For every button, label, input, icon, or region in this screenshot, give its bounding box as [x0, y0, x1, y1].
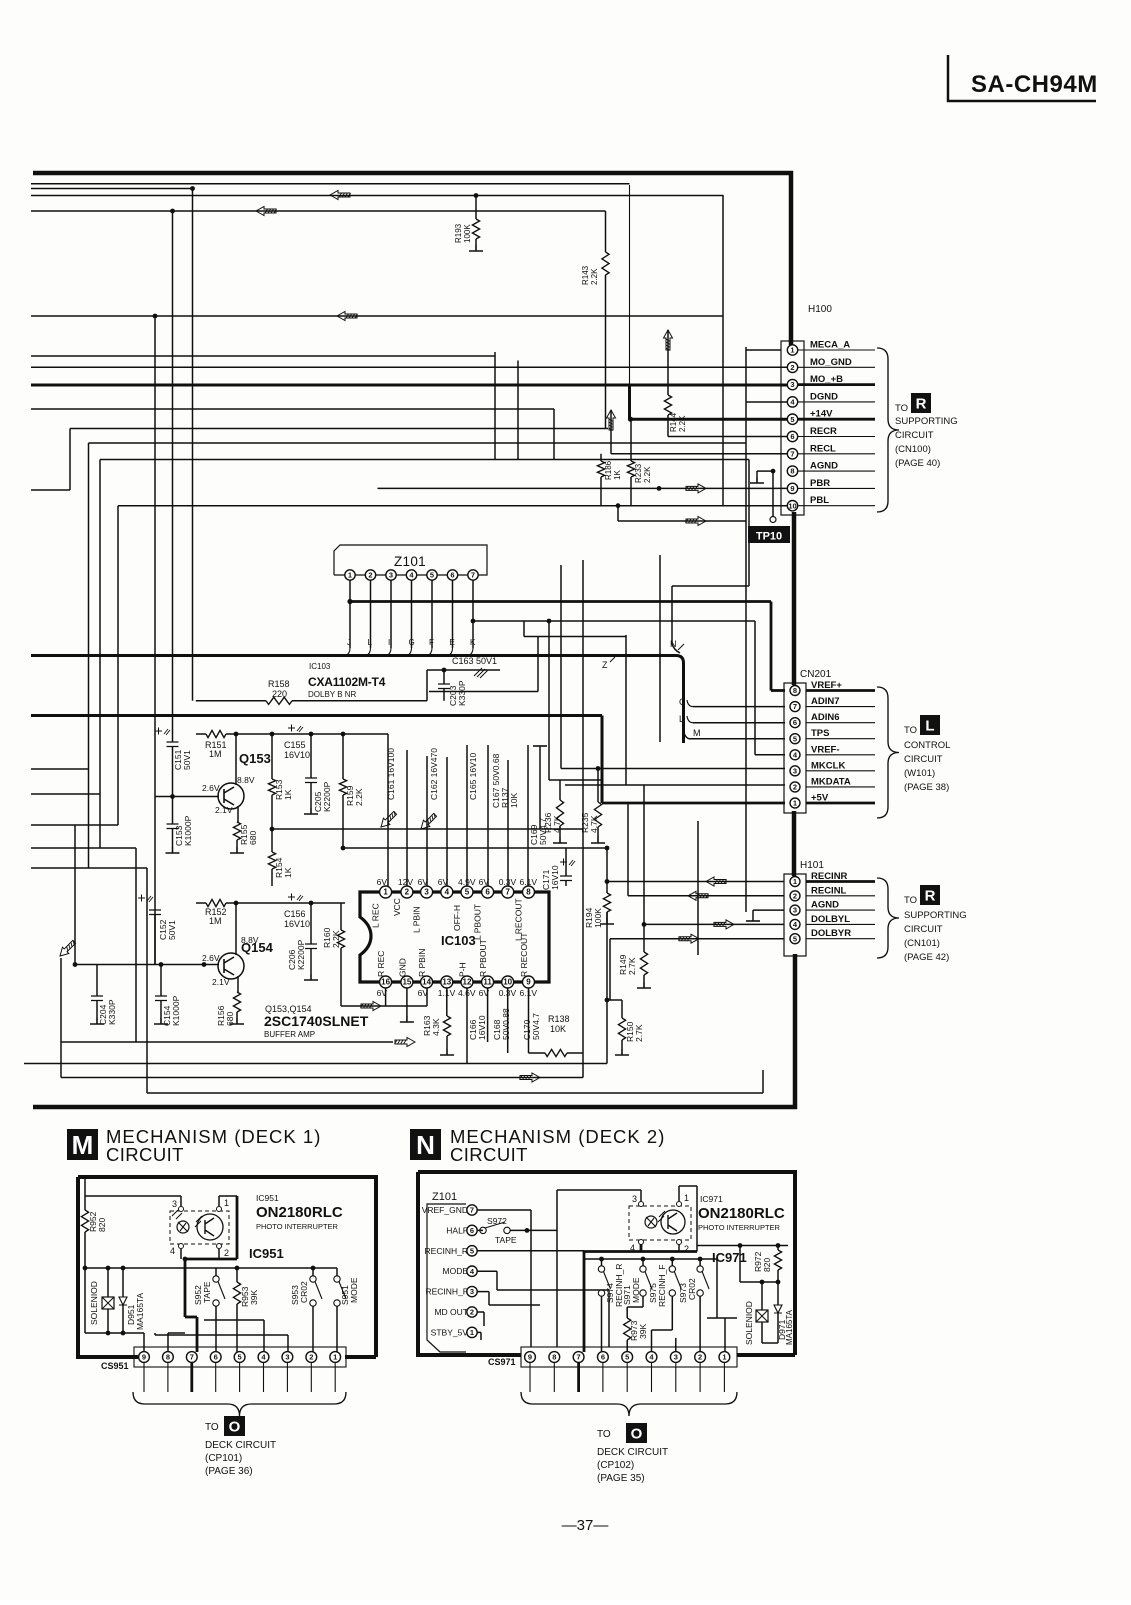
svg-text:TAPE: TAPE — [495, 1235, 517, 1245]
svg-text:Z101: Z101 — [394, 554, 426, 569]
bold wire y385 to H100 pin3 MO_+B — [31, 384, 787, 387]
svg-text:CR02: CR02 — [299, 1281, 309, 1303]
svg-text:R193: R193 — [454, 223, 463, 243]
svg-text:IC971: IC971 — [700, 1194, 723, 1204]
svg-text:16V10: 16V10 — [284, 750, 310, 760]
CN201 pin 7 ADIN7 — [806, 706, 875, 708]
svg-text:3: 3 — [389, 571, 393, 580]
svg-text:12: 12 — [463, 978, 472, 987]
svg-text:2.1V: 2.1V — [215, 805, 233, 815]
svg-text:2.2K: 2.2K — [678, 415, 687, 432]
deck2 Z101 pin 4 MODE — [467, 1266, 477, 1276]
wire y829 — [270, 827, 275, 832]
Q153 base wire — [155, 796, 219, 798]
svg-text:K330P: K330P — [107, 999, 117, 1025]
svg-text:PHOTO INTERRUPTER: PHOTO INTERRUPTER — [256, 1222, 339, 1231]
svg-text:MD OUT: MD OUT — [434, 1307, 468, 1317]
svg-text:IC103: IC103 — [441, 933, 476, 948]
svg-text:TO: TO — [205, 1422, 219, 1433]
svg-text:8: 8 — [552, 1353, 556, 1362]
CS971 pin 8 — [549, 1352, 560, 1363]
svg-text:AGND: AGND — [810, 461, 838, 472]
resistor R150 2.7K — [621, 1000, 623, 1018]
svg-text:3: 3 — [632, 1194, 637, 1204]
deck2 brace to deck circuit — [521, 1392, 737, 1416]
deck2 photo transistor — [661, 1210, 685, 1234]
CN201 pin 1 +5V — [806, 802, 875, 805]
IC103 top pin 7 — [502, 886, 514, 898]
connector CN201 body — [784, 683, 806, 813]
resistor R233 2.2K — [630, 419, 632, 461]
wire y785 MKDATA — [565, 784, 785, 786]
svg-text:1K: 1K — [283, 867, 293, 878]
svg-text:MA165TA: MA165TA — [135, 1293, 145, 1330]
off-page arrow on y211 — [256, 207, 277, 216]
svg-text:39K: 39K — [249, 1290, 259, 1305]
deck2 riser x697 — [696, 1186, 698, 1252]
svg-text:4.7K: 4.7K — [589, 815, 599, 833]
svg-text:4.9V: 4.9V — [458, 877, 476, 887]
vertical wire x88.5 to y868 — [88, 443, 90, 868]
resistor R236 4.7K — [559, 780, 561, 800]
svg-text:CIRCUIT: CIRCUIT — [904, 754, 943, 765]
CS971 pin 4 — [646, 1352, 657, 1363]
vertical x583 return — [582, 560, 584, 1078]
svg-text:MA165TA: MA165TA — [785, 1309, 794, 1345]
svg-text:O: O — [631, 1425, 643, 1442]
svg-text:3: 3 — [424, 888, 429, 897]
svg-text:16V10: 16V10 — [477, 1015, 487, 1040]
svg-text:16: 16 — [381, 978, 390, 987]
svg-text:IC951: IC951 — [249, 1246, 284, 1261]
wire y409 — [31, 408, 554, 410]
IC top pin6 wire x488 — [487, 745, 489, 886]
svg-text:VCC: VCC — [392, 898, 402, 916]
vertical x607 return — [606, 848, 608, 893]
svg-text:Q153: Q153 — [239, 751, 271, 766]
svg-text:1: 1 — [470, 1328, 474, 1337]
CS951 pin 9 — [139, 1352, 150, 1363]
wire y586 — [672, 585, 749, 587]
svg-text:N: N — [416, 1130, 435, 1160]
bold bus y715 — [31, 714, 602, 717]
IC pin12 wire down to return bus — [466, 988, 468, 1064]
H100 brace — [877, 348, 899, 512]
vertical wire x554 — [553, 409, 555, 460]
svg-text:SOLENIOD: SOLENIOD — [89, 1281, 99, 1325]
CN201 pin 8 VREF+ — [806, 689, 875, 692]
resistor R149 2.7K — [643, 924, 645, 952]
deck2 connector CS971 body — [521, 1347, 737, 1367]
svg-text:TAPE: TAPE — [202, 1281, 212, 1303]
svg-text:5: 5 — [238, 1353, 242, 1362]
thick bus right vertical upper — [789, 171, 794, 345]
svg-text:5: 5 — [790, 415, 794, 424]
CS951 pin 5 — [234, 1352, 245, 1363]
svg-text:RECR: RECR — [810, 426, 837, 437]
svg-text:2.2K: 2.2K — [643, 466, 652, 483]
CS971 pin 2 — [695, 1352, 706, 1363]
svg-text:16V10: 16V10 — [284, 919, 310, 929]
resistor R235 4.7K — [597, 769, 599, 803]
svg-text:6: 6 — [790, 432, 794, 441]
H100 pin 6 RECR — [798, 436, 875, 438]
IC103 bottom pin 14 — [421, 976, 433, 988]
svg-text:R233: R233 — [634, 463, 643, 483]
H101 pin 2 RECINL — [806, 895, 875, 897]
vertical wire x118 — [117, 506, 119, 825]
IC103 chip body — [360, 892, 549, 982]
Q154 base wire y964.5 — [75, 964, 219, 966]
svg-text:K2200P: K2200P — [322, 781, 332, 812]
svg-text:C162 16V470: C162 16V470 — [429, 748, 439, 800]
resistor R153 1K — [271, 734, 273, 779]
wire y356 MO_GND-area — [31, 355, 495, 357]
vertical x147 — [146, 868, 148, 1093]
transistor Q154 — [218, 953, 244, 979]
svg-text:8: 8 — [166, 1353, 170, 1362]
svg-text:K2200P: K2200P — [296, 939, 306, 970]
deck1 pin3 riser — [287, 1335, 289, 1352]
IC103 bottom pin 13 — [441, 976, 453, 988]
off-page arrow on y1077.5 — [520, 1073, 541, 1082]
deck1 diode D951 MA165TA — [122, 1268, 124, 1297]
svg-text:6V: 6V — [479, 877, 490, 887]
Z101 pin 6 — [447, 570, 457, 580]
svg-text:5: 5 — [430, 571, 434, 580]
svg-text:HALF: HALF — [446, 1225, 468, 1235]
svg-text:50V1: 50V1 — [182, 750, 192, 770]
deck2 pin3 riser — [675, 1338, 677, 1352]
svg-text:4.7K: 4.7K — [552, 815, 562, 833]
svg-text:GND: GND — [397, 958, 407, 977]
deck1 switch S951 MODE — [336, 1268, 338, 1276]
CS951 pin 6 — [210, 1352, 221, 1363]
svg-text:2.6V: 2.6V — [202, 783, 220, 793]
svg-text:1K: 1K — [283, 789, 293, 800]
svg-text:5: 5 — [793, 734, 797, 743]
CN201 pin 2 MKDATA — [806, 786, 875, 788]
CN201 brace — [877, 687, 899, 818]
svg-text:2.7K: 2.7K — [627, 957, 637, 975]
svg-text:MO_+B: MO_+B — [810, 374, 843, 385]
long vertical x192 to R158 wire — [192, 189, 194, 701]
vertical wire x626 node Z to MKDATA — [625, 635, 627, 785]
Z101 pin 7 — [468, 570, 478, 580]
svg-text:C165 16V10: C165 16V10 — [468, 752, 478, 800]
Z101 pin 1 — [345, 570, 355, 580]
IC top pin4 wire x447 — [446, 757, 448, 886]
resistor R194 100K — [603, 893, 610, 912]
H101 pin 5 DOLBYR — [806, 938, 875, 940]
svg-text:680: 680 — [248, 831, 258, 845]
IC103 top pin 6 — [482, 886, 494, 898]
svg-text:C163 50V1: C163 50V1 — [452, 656, 497, 666]
deck2 switch S971 MODE — [642, 1259, 644, 1266]
resistor R186 1K — [600, 454, 602, 461]
svg-text:9: 9 — [142, 1353, 146, 1362]
svg-text:13: 13 — [442, 978, 451, 987]
deck2 interrupter terminals — [639, 1202, 644, 1207]
capacitor C203 K330P — [443, 670, 445, 684]
IC103 top pin 4 — [441, 886, 453, 898]
capacitor C171 16V10 — [560, 859, 575, 867]
vertical x561 — [560, 565, 562, 769]
vertical wire x630 from y185 — [629, 185, 631, 387]
wire y636.5 jog — [523, 621, 525, 637]
svg-text:2: 2 — [698, 1353, 702, 1362]
svg-text:2.1V: 2.1V — [212, 977, 230, 987]
deck2 Z101 pin 2 MD OUT — [467, 1307, 477, 1317]
svg-text:R RECOUT: R RECOUT — [519, 933, 529, 977]
svg-text:MKDATA: MKDATA — [811, 776, 851, 787]
H101 pin 3 AGND — [806, 909, 875, 911]
main schematic top border — [33, 171, 793, 176]
wire node C to CN201 ADIN7 — [693, 706, 785, 708]
IC top pin5 wire x467 — [466, 745, 468, 886]
H100 pin 10 PBL — [798, 505, 875, 507]
svg-text:5: 5 — [625, 1353, 629, 1362]
svg-text:CIRCUIT: CIRCUIT — [904, 924, 943, 935]
svg-text:820: 820 — [762, 1258, 772, 1272]
return wire y1077.5 — [61, 1077, 583, 1079]
CS951 pin 4 — [258, 1352, 269, 1363]
svg-text:50V0.88: 50V0.88 — [501, 1008, 511, 1040]
svg-text:ON2180RLC: ON2180RLC — [256, 1204, 343, 1221]
svg-text:J: J — [347, 638, 351, 647]
wire y367 to H100 pin2 — [31, 366, 787, 368]
capacitor C153 K1000P — [172, 797, 174, 825]
deck1 wire pin1 riser — [218, 1196, 220, 1206]
Z101 pin 3 — [386, 570, 396, 580]
svg-text:2: 2 — [793, 891, 797, 900]
svg-text:MECA_A: MECA_A — [810, 340, 850, 351]
VREF- divider drop x549 — [547, 619, 552, 624]
vertical x755 to CN201 VREF- pin4 — [754, 621, 756, 755]
svg-text:RECINH_F: RECINH_F — [425, 1287, 468, 1297]
H100 pin8 ground and TP10 riser — [771, 469, 776, 474]
H100 pin 8 AGND — [798, 470, 875, 472]
heading N mechanism deck2 — [410, 1129, 441, 1160]
svg-text:6V: 6V — [418, 877, 429, 887]
svg-text:RECL: RECL — [810, 443, 836, 454]
svg-text:RECINL: RECINL — [811, 885, 847, 896]
wire node M to CN201 TPS — [689, 738, 785, 740]
svg-text:C161 16V100: C161 16V100 — [386, 748, 396, 800]
svg-text:5: 5 — [793, 934, 797, 943]
connector H101 body — [784, 874, 806, 956]
transistor Q153 — [218, 783, 244, 809]
svg-text:+5V: +5V — [811, 792, 829, 803]
svg-text:4: 4 — [445, 888, 450, 897]
svg-text:SOLENIOD: SOLENIOD — [744, 1301, 754, 1345]
svg-text:7: 7 — [190, 1353, 194, 1362]
deck1 box border — [78, 1177, 376, 1357]
svg-text:K1000P: K1000P — [183, 815, 193, 846]
H101 pin 4 DOLBYL — [806, 923, 875, 925]
svg-text:MODE: MODE — [349, 1277, 359, 1303]
IC103 top pin 3 — [421, 886, 433, 898]
svg-text:R PBOUT: R PBOUT — [478, 939, 488, 977]
resistor R154 1K — [271, 829, 273, 852]
capacitor C206 K2200P — [310, 903, 312, 944]
svg-text:RECINH_F: RECINH_F — [657, 1264, 667, 1307]
svg-text:7: 7 — [790, 449, 794, 458]
svg-text:C155: C155 — [284, 740, 306, 750]
wire y490 stub — [31, 489, 70, 491]
deck2 Z101 pin 5 RECINH_R — [467, 1246, 477, 1256]
svg-text:100K: 100K — [593, 908, 603, 928]
Z101 pin 5 — [427, 570, 437, 580]
CS971 pin 6 — [598, 1352, 609, 1363]
CS951 pin 2 — [306, 1352, 317, 1363]
svg-text:C156: C156 — [284, 909, 306, 919]
deck2 ground bar to pin1 — [716, 1259, 718, 1318]
wire y848 right segment — [341, 846, 346, 851]
svg-text:2: 2 — [309, 1353, 313, 1362]
IC103 bottom pin 15 — [401, 976, 413, 988]
long vertical x172 — [172, 211, 174, 742]
svg-text:6V: 6V — [377, 877, 388, 887]
deck1 resistor R952 820 — [84, 1179, 86, 1210]
svg-text:(CN100): (CN100) — [895, 444, 931, 455]
svg-text:RECINH_R: RECINH_R — [425, 1246, 468, 1256]
svg-text:CXA1102M-T4: CXA1102M-T4 — [308, 675, 386, 689]
deck1 switch S952 TAPE — [215, 1268, 217, 1276]
svg-text:820: 820 — [97, 1218, 107, 1232]
resistor R159 2.2K — [342, 734, 344, 779]
svg-text:6: 6 — [450, 571, 454, 580]
H100 left frame wire — [746, 349, 781, 351]
svg-text:8: 8 — [790, 467, 794, 476]
svg-text:CN201: CN201 — [800, 669, 832, 680]
svg-text:MKCLK: MKCLK — [811, 760, 845, 771]
H101 brace — [877, 878, 899, 958]
svg-text:1M: 1M — [209, 916, 222, 926]
deck2 Z101 pin 3 RECINH_F — [467, 1286, 477, 1296]
svg-text:PBL: PBL — [810, 495, 829, 506]
deck1 photo interrupter IC951 dashed box — [170, 1211, 229, 1244]
main schematic bottom border — [33, 1105, 797, 1110]
svg-text:6: 6 — [214, 1353, 218, 1362]
deck2 wire x740 — [739, 1246, 741, 1283]
svg-text:TO: TO — [895, 403, 908, 414]
svg-text:DECK CIRCUIT: DECK CIRCUIT — [597, 1447, 668, 1458]
H101 pin 1 RECINR — [806, 880, 875, 883]
svg-text:DOLBYR: DOLBYR — [811, 928, 851, 939]
IC103 bottom pin 16 — [380, 976, 392, 988]
resistor R163 4.3K — [446, 988, 448, 1016]
svg-text:DOLBYL: DOLBYL — [811, 914, 850, 925]
Z101 pin stub wires with hooks — [349, 580, 351, 648]
deck2 Z101 pin 7 VREF_GND — [467, 1205, 477, 1215]
capacitor C152 50V1 on x155 — [138, 895, 153, 903]
svg-text:O: O — [229, 1418, 241, 1435]
svg-text:TO: TO — [904, 725, 917, 736]
svg-text:N: N — [670, 639, 677, 649]
return wire y1042 — [61, 1041, 393, 1043]
svg-text:TO: TO — [904, 895, 917, 906]
wire y825 — [31, 824, 118, 826]
vertical wire x495 — [494, 352, 496, 460]
svg-text:(PAGE 36): (PAGE 36) — [205, 1466, 253, 1477]
H100 pin 9 PBR — [798, 487, 875, 489]
H101 RECINR wire with arrow — [605, 879, 610, 884]
test point TP10 — [770, 517, 776, 523]
deck1 pin4 riser — [263, 1320, 265, 1352]
svg-text:VREF+: VREF+ — [811, 680, 842, 691]
svg-text:(CP101): (CP101) — [205, 1453, 242, 1464]
off-page arrow right end y1042 — [395, 1038, 416, 1047]
svg-text:R: R — [925, 887, 936, 904]
CS951 pin 8 — [163, 1352, 174, 1363]
svg-text:2.2K: 2.2K — [331, 930, 341, 948]
svg-text:5: 5 — [470, 1246, 474, 1255]
CS971 pin 9 — [525, 1352, 536, 1363]
IC top pin8 wire x528 — [527, 745, 529, 886]
vertical x698 — [697, 821, 699, 955]
off-page arrow on y1006 wire — [361, 1002, 382, 1011]
svg-text:39K: 39K — [638, 1324, 648, 1339]
resistor R156 680 — [237, 990, 239, 992]
Z101 pin 4 — [406, 570, 416, 580]
deck2 Z101 pin wires to CS971 — [477, 1209, 531, 1211]
svg-text:2: 2 — [368, 571, 372, 580]
svg-text:3: 3 — [793, 766, 797, 775]
CN201 pin 5 TPS — [806, 738, 875, 740]
bold +5V wire to CN201 pin1 — [602, 802, 785, 805]
vertical x75 to C204 area — [74, 825, 76, 965]
resistor R143 2.2K — [605, 211, 607, 252]
deck1 switch S953 CR02 — [312, 1268, 314, 1276]
svg-text:SUPPORTING: SUPPORTING — [895, 416, 958, 427]
svg-text:6: 6 — [485, 888, 490, 897]
svg-text:(W101): (W101) — [904, 768, 935, 779]
svg-text:I: I — [388, 638, 390, 647]
svg-text:AGND: AGND — [811, 900, 839, 911]
svg-text:TPS: TPS — [811, 728, 829, 739]
heading M mechanism deck1 — [67, 1129, 98, 1160]
svg-text:1: 1 — [224, 1198, 229, 1208]
CN201 pin 6 ADIN6 — [806, 722, 875, 724]
svg-text:K330P: K330P — [457, 680, 467, 706]
svg-text:2.6V: 2.6V — [202, 953, 220, 963]
svg-text:14: 14 — [422, 978, 431, 987]
deck1 photo transistor — [197, 1214, 223, 1240]
svg-text:R144: R144 — [669, 412, 678, 432]
svg-text:Z101: Z101 — [432, 1191, 457, 1203]
svg-text:PHOTO INTERRUPTER: PHOTO INTERRUPTER — [698, 1223, 781, 1232]
svg-text:SUPPORTING: SUPPORTING — [904, 910, 967, 921]
svg-text:L: L — [679, 714, 684, 724]
connector Z101 outline — [334, 545, 487, 575]
wire top bus y188.5 — [31, 188, 193, 190]
svg-text:STBY_5V: STBY_5V — [431, 1327, 469, 1337]
CN201 pin 4 VREF- — [806, 754, 875, 756]
H101 DOLBYR wire with arrow — [610, 938, 784, 940]
svg-text:TP10: TP10 — [756, 531, 782, 543]
svg-text:(PAGE 42): (PAGE 42) — [904, 952, 949, 963]
svg-text:1: 1 — [684, 1193, 689, 1203]
svg-text:G: G — [409, 638, 415, 647]
wire y670 C163 net — [427, 669, 500, 671]
svg-text:6: 6 — [470, 1226, 474, 1235]
svg-text:K1000P: K1000P — [171, 995, 181, 1026]
wire y621 to VREF- column — [473, 620, 755, 622]
svg-text:VREF_GND: VREF_GND — [422, 1205, 468, 1215]
wire y316 with off-page arrow — [31, 315, 723, 317]
H100 pin 4 DGND — [798, 401, 875, 403]
